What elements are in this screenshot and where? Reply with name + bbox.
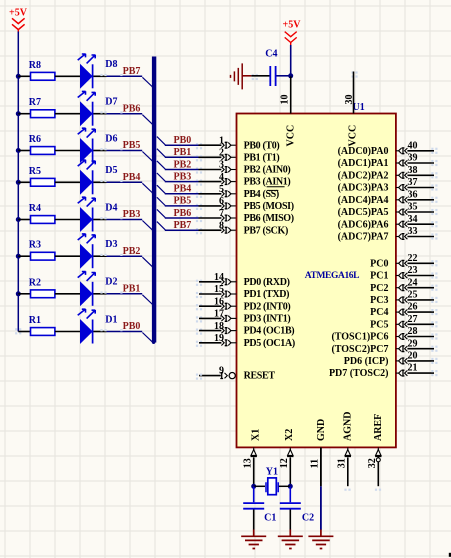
wire xyxy=(165,216,222,222)
svg-text:PB5: PB5 xyxy=(123,140,141,151)
svg-text:PD3 (INT1): PD3 (INT1) xyxy=(244,314,291,325)
wire bus entry xyxy=(142,115,155,127)
power +5V xyxy=(283,19,302,45)
svg-text:PB0: PB0 xyxy=(123,321,141,332)
svg-text:8: 8 xyxy=(219,220,224,231)
pin 27 xyxy=(396,314,438,328)
svg-text:20: 20 xyxy=(408,351,418,362)
capacitor C1 xyxy=(243,503,276,523)
net label PB4 xyxy=(123,172,141,183)
junction xyxy=(16,217,21,222)
pin name AREF xyxy=(373,414,384,441)
svg-text:R3: R3 xyxy=(29,240,41,251)
LED D6 xyxy=(78,128,118,163)
svg-text:27: 27 xyxy=(408,314,418,325)
svg-text:(ADC7)PA7: (ADC7)PA7 xyxy=(338,232,389,243)
svg-text:+5V: +5V xyxy=(9,7,28,18)
wire xyxy=(289,510,291,530)
svg-text:28: 28 xyxy=(408,326,418,337)
svg-text:(ADC6)PA6: (ADC6)PA6 xyxy=(338,219,389,230)
wire xyxy=(55,219,80,221)
resistor R2 xyxy=(29,277,55,297)
wire xyxy=(18,293,30,295)
pin name RESET xyxy=(244,371,276,382)
svg-text:4: 4 xyxy=(219,172,224,183)
pin 9 RESET xyxy=(196,365,235,379)
svg-text:R8: R8 xyxy=(29,60,41,71)
wire bus entry xyxy=(142,257,155,268)
junction xyxy=(16,74,21,79)
svg-text:35: 35 xyxy=(408,202,418,213)
pin 5 xyxy=(219,184,237,197)
wire +5V rail xyxy=(15,32,21,335)
svg-text:PC1: PC1 xyxy=(370,271,388,282)
wire xyxy=(165,167,222,173)
svg-text:PB2 (AIN0): PB2 (AIN0) xyxy=(244,165,291,176)
resistor R7 xyxy=(29,97,55,117)
svg-text:GND: GND xyxy=(316,419,327,441)
pin 10 xyxy=(279,95,290,105)
svg-text:C4: C4 xyxy=(265,49,277,60)
svg-text:PC0: PC0 xyxy=(370,258,388,269)
pin names PD0-PD5 xyxy=(244,277,295,349)
resistor R3 xyxy=(29,240,55,260)
pin 19 xyxy=(196,333,237,347)
svg-text:2: 2 xyxy=(219,148,224,159)
LED D4 xyxy=(78,197,118,232)
svg-text:(ADC5)PA5: (ADC5)PA5 xyxy=(338,207,389,218)
svg-text:38: 38 xyxy=(408,165,418,176)
svg-text:PC4: PC4 xyxy=(370,307,388,318)
bus PB[0..7] xyxy=(152,57,156,343)
overline SS xyxy=(267,187,285,191)
svg-text:C1: C1 xyxy=(264,513,276,524)
net label PB1 xyxy=(174,147,192,158)
pin 40 xyxy=(396,140,438,154)
wire xyxy=(55,113,80,115)
svg-text:PB5: PB5 xyxy=(174,196,192,207)
pin 24 xyxy=(396,277,438,291)
pin 25 xyxy=(396,290,438,304)
resistor R8 xyxy=(29,60,55,80)
pin 8 xyxy=(219,220,237,233)
svg-text:(ADC0)PA0: (ADC0)PA0 xyxy=(338,146,389,157)
svg-text:PB1: PB1 xyxy=(174,147,192,158)
svg-text:R2: R2 xyxy=(29,277,41,288)
svg-text:3: 3 xyxy=(219,160,224,171)
wire xyxy=(55,75,80,77)
svg-text:1: 1 xyxy=(219,135,224,146)
pin 22 xyxy=(396,253,438,267)
wire bus entry xyxy=(142,295,155,307)
svg-text:40: 40 xyxy=(408,140,418,151)
power +5V xyxy=(9,7,28,32)
wire xyxy=(253,486,255,502)
pin names PC0-PC7 PD6 PD7 xyxy=(329,258,389,379)
svg-text:PB1: PB1 xyxy=(123,283,141,294)
pin 39 xyxy=(396,153,438,166)
pin 3 xyxy=(219,160,237,173)
svg-text:19: 19 xyxy=(214,333,224,344)
pin 34 xyxy=(396,214,438,228)
svg-text:PB4: PB4 xyxy=(174,184,192,195)
resistor R5 xyxy=(29,166,55,186)
svg-text:ATMEGA16L: ATMEGA16L xyxy=(305,271,359,281)
svg-text:12: 12 xyxy=(279,458,290,468)
svg-text:31: 31 xyxy=(337,458,348,468)
svg-text:R5: R5 xyxy=(29,166,41,177)
svg-text:PB1 (T1): PB1 (T1) xyxy=(244,152,280,163)
svg-text:PB6: PB6 xyxy=(123,103,141,114)
pin 33 xyxy=(396,226,438,239)
pin 31 AGND xyxy=(337,447,351,490)
LED D2 xyxy=(78,271,118,306)
svg-text:PD2 (INT0): PD2 (INT0) xyxy=(244,301,291,312)
wire xyxy=(277,75,291,77)
pin name X2 xyxy=(284,429,295,441)
pin names PA0-PA7 xyxy=(338,146,389,243)
svg-text:PB7: PB7 xyxy=(174,220,192,231)
svg-text:VCC: VCC xyxy=(347,125,358,147)
svg-text:13: 13 xyxy=(243,458,254,468)
crystal Y1 xyxy=(266,467,278,495)
LED D7 xyxy=(78,91,118,126)
ground xyxy=(308,530,333,549)
net label PB0 xyxy=(174,135,192,146)
wire xyxy=(55,293,80,295)
IC U1 ATMEGA16L xyxy=(237,102,396,447)
svg-text:29: 29 xyxy=(408,338,418,349)
svg-text:C2: C2 xyxy=(302,513,314,524)
junction xyxy=(16,291,21,296)
wire xyxy=(55,150,80,152)
wire xyxy=(18,113,30,115)
svg-text:34: 34 xyxy=(408,214,418,225)
svg-text:PB3 (AIN1): PB3 (AIN1) xyxy=(244,177,291,188)
net label PB1 xyxy=(123,283,141,294)
pin 26 xyxy=(396,302,438,316)
wire bus entry xyxy=(157,149,165,157)
svg-text:PC3: PC3 xyxy=(370,295,388,306)
net label PB5 xyxy=(174,196,192,207)
svg-text:(ADC1)PA1: (ADC1)PA1 xyxy=(338,158,389,169)
svg-text:+5V: +5V xyxy=(283,19,302,30)
wire xyxy=(93,180,142,182)
wire bus entry xyxy=(142,333,155,344)
junction xyxy=(16,148,21,153)
wire xyxy=(251,74,269,80)
pin name AGND xyxy=(343,412,354,441)
pin 36 xyxy=(396,189,438,203)
svg-text:D4: D4 xyxy=(105,202,117,213)
svg-text:22: 22 xyxy=(408,253,418,264)
svg-text:PD1 (TXD): PD1 (TXD) xyxy=(244,289,289,300)
svg-text:RESET: RESET xyxy=(244,371,276,382)
svg-text:33: 33 xyxy=(408,226,418,237)
wire bus entry xyxy=(157,185,165,193)
junction xyxy=(16,111,21,116)
pin 2 xyxy=(219,148,237,161)
svg-text:39: 39 xyxy=(408,153,418,164)
pin 38 xyxy=(396,165,438,179)
wire xyxy=(93,329,142,331)
pin 21 xyxy=(396,363,438,377)
svg-text:PB0: PB0 xyxy=(174,135,192,146)
svg-text:X2: X2 xyxy=(284,429,295,441)
wire xyxy=(93,74,142,76)
junction xyxy=(288,484,293,489)
pin 17 xyxy=(196,309,237,323)
svg-text:11: 11 xyxy=(310,459,321,468)
junction xyxy=(288,73,293,78)
LED D8 xyxy=(78,54,118,89)
wire xyxy=(165,143,222,149)
wire xyxy=(165,192,222,198)
svg-text:R6: R6 xyxy=(29,134,41,145)
wire xyxy=(18,219,30,221)
pin 23 xyxy=(396,265,438,279)
wire bus entry xyxy=(142,77,155,89)
wire xyxy=(55,331,80,333)
pin 7 xyxy=(219,208,237,221)
wire bus entry xyxy=(157,197,165,205)
svg-text:X1: X1 xyxy=(251,429,262,441)
svg-text:32: 32 xyxy=(367,458,378,468)
pin name VCC xyxy=(286,125,297,147)
net label PB6 xyxy=(174,208,192,219)
wire xyxy=(449,553,451,557)
net label PB0 xyxy=(123,321,141,332)
wire pin 10 xyxy=(290,76,292,114)
pin 14 xyxy=(196,272,237,286)
ground xyxy=(231,63,252,89)
svg-text:PB5 (MOSI): PB5 (MOSI) xyxy=(244,201,294,212)
svg-text:PC5: PC5 xyxy=(370,319,388,330)
wire xyxy=(93,254,142,256)
svg-text:D7: D7 xyxy=(105,97,117,108)
svg-text:6: 6 xyxy=(219,196,224,207)
svg-text:5: 5 xyxy=(219,184,224,195)
resistor R1 xyxy=(29,315,55,335)
junction xyxy=(16,180,21,185)
wire xyxy=(93,291,142,293)
svg-text:PB7 (SCK): PB7 (SCK) xyxy=(244,225,288,236)
svg-text:Y1: Y1 xyxy=(266,467,278,478)
wire xyxy=(55,181,80,183)
svg-text:AREF: AREF xyxy=(373,414,384,441)
svg-text:(ADC3)PA3: (ADC3)PA3 xyxy=(338,183,389,194)
wire xyxy=(18,181,30,183)
svg-text:AGND: AGND xyxy=(343,412,354,441)
svg-text:16: 16 xyxy=(214,296,224,307)
net label PB4 xyxy=(174,184,192,195)
svg-text:R4: R4 xyxy=(29,203,41,214)
svg-text:PB6 (MISO): PB6 (MISO) xyxy=(244,213,294,224)
wire xyxy=(93,148,142,150)
svg-text:PD5 (OC1A): PD5 (OC1A) xyxy=(244,338,295,349)
wire bus entry xyxy=(157,161,165,169)
wire xyxy=(18,255,30,257)
svg-text:D1: D1 xyxy=(105,314,117,325)
net label PB6 xyxy=(123,103,141,114)
resistor R4 xyxy=(29,203,55,223)
wire bus entry xyxy=(142,183,155,195)
ground xyxy=(241,530,266,549)
svg-text:PB4: PB4 xyxy=(123,172,141,183)
wire xyxy=(18,331,30,333)
net label PB2 xyxy=(174,159,192,170)
wire xyxy=(55,255,80,257)
svg-text:D3: D3 xyxy=(105,239,117,250)
wire xyxy=(165,180,222,186)
svg-text:VCC: VCC xyxy=(286,125,297,147)
wire xyxy=(253,510,255,530)
svg-text:(TOSC2)PC7: (TOSC2)PC7 xyxy=(331,344,388,355)
wire bus entry xyxy=(157,222,165,230)
svg-text:PB7: PB7 xyxy=(123,66,141,77)
net label PB7 xyxy=(174,220,192,231)
wire xyxy=(165,228,222,234)
svg-text:D5: D5 xyxy=(105,165,117,176)
wire xyxy=(18,150,30,152)
wire xyxy=(290,45,292,76)
svg-text:R1: R1 xyxy=(29,315,41,326)
wire bus entry xyxy=(142,221,155,233)
ground xyxy=(278,530,303,549)
net label PB7 xyxy=(123,66,141,77)
net label PB5 xyxy=(123,140,141,151)
svg-text:(TOSC1)PC6: (TOSC1)PC6 xyxy=(331,332,388,343)
pin 35 xyxy=(396,202,438,215)
svg-text:R7: R7 xyxy=(29,97,41,108)
svg-text:PD6 (ICP): PD6 (ICP) xyxy=(344,356,389,367)
wire xyxy=(289,486,291,502)
wire xyxy=(93,217,142,219)
wire xyxy=(165,155,222,161)
wire xyxy=(254,485,291,487)
svg-text:18: 18 xyxy=(214,321,224,332)
LED D3 xyxy=(78,234,118,269)
net label PB2 xyxy=(123,246,141,257)
pin names PB0-PB7 xyxy=(244,140,294,236)
pin 6 xyxy=(219,196,237,209)
svg-text:(ADC2)PA2: (ADC2)PA2 xyxy=(338,170,389,181)
svg-text:PD7 (TOSC2): PD7 (TOSC2) xyxy=(329,368,389,379)
junction xyxy=(251,484,256,489)
svg-text:21: 21 xyxy=(408,363,418,374)
svg-text:PD4 (OC1B): PD4 (OC1B) xyxy=(244,326,295,337)
svg-text:14: 14 xyxy=(214,272,224,283)
pin 30 xyxy=(344,95,355,105)
svg-text:PB0 (T0): PB0 (T0) xyxy=(244,140,280,151)
pin 4 xyxy=(219,172,237,185)
pin 1 xyxy=(219,135,237,148)
svg-text:D2: D2 xyxy=(105,277,117,288)
svg-text:10: 10 xyxy=(279,95,290,105)
pin 11 GND xyxy=(310,447,321,529)
svg-text:36: 36 xyxy=(408,189,418,200)
svg-text:25: 25 xyxy=(408,290,418,301)
wire bus entry xyxy=(157,173,165,181)
pin 15 xyxy=(196,284,237,298)
wire bus entry xyxy=(157,209,165,217)
svg-text:PD0 (RXD): PD0 (RXD) xyxy=(244,277,290,288)
svg-text:24: 24 xyxy=(408,277,418,288)
pin 12 X2 xyxy=(279,447,293,486)
svg-text:PB6: PB6 xyxy=(174,208,192,219)
svg-text:PC2: PC2 xyxy=(370,283,388,294)
svg-text:D6: D6 xyxy=(105,133,117,144)
net label PB3 xyxy=(174,171,192,182)
pin 18 xyxy=(196,321,237,335)
wire xyxy=(165,204,222,210)
svg-text:PB2: PB2 xyxy=(123,246,141,257)
svg-text:30: 30 xyxy=(344,95,355,105)
svg-text:9: 9 xyxy=(219,365,224,376)
pin 37 xyxy=(396,177,438,190)
wire xyxy=(18,75,30,77)
wire bus entry xyxy=(157,137,165,145)
pin 28 xyxy=(396,326,438,340)
LED D5 xyxy=(78,160,118,195)
wire xyxy=(93,111,142,113)
svg-text:PB2: PB2 xyxy=(174,159,192,170)
svg-text:17: 17 xyxy=(214,309,224,320)
pin name VCC xyxy=(347,125,358,147)
svg-text:PB3: PB3 xyxy=(123,209,141,220)
pin name GND xyxy=(316,419,327,441)
capacitor C4 xyxy=(265,49,277,86)
svg-text:23: 23 xyxy=(408,265,418,276)
svg-text:15: 15 xyxy=(214,284,224,295)
junction xyxy=(16,254,21,259)
svg-text:(ADC4)PA4: (ADC4)PA4 xyxy=(338,195,389,206)
net label PB3 xyxy=(123,209,141,220)
pin name X1 xyxy=(251,429,262,441)
pin 32 AREF xyxy=(367,447,381,490)
resistor R6 xyxy=(29,134,55,154)
svg-text:37: 37 xyxy=(408,177,418,188)
pin 20 xyxy=(396,351,438,365)
pin 13 X1 xyxy=(243,447,257,486)
pin 29 xyxy=(396,338,438,352)
LED D1 xyxy=(78,309,118,344)
svg-text:7: 7 xyxy=(219,208,224,219)
wire bus entry xyxy=(142,152,155,164)
wire pin 30 xyxy=(351,71,357,113)
svg-text:26: 26 xyxy=(408,302,418,313)
svg-text:D8: D8 xyxy=(105,59,117,70)
svg-text:PB3: PB3 xyxy=(174,171,192,182)
capacitor C2 xyxy=(280,503,314,523)
pin 16 xyxy=(196,296,237,310)
